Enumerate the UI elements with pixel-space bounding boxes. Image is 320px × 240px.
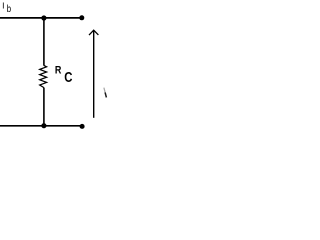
svg-text:I: I xyxy=(2,1,4,11)
resistor R_C zigzag xyxy=(40,65,47,87)
svg-text:C: C xyxy=(64,70,73,86)
current arrow shaft (pointing up) xyxy=(93,31,95,118)
wire resistor branch lower segment xyxy=(43,88,45,126)
svg-text:b: b xyxy=(7,4,12,15)
wire resistor branch upper segment xyxy=(43,18,45,66)
junction dot top node xyxy=(41,15,46,20)
wire top horizontal xyxy=(0,17,82,19)
node dot bottom-right wire endpoint xyxy=(80,124,85,129)
label I_b xyxy=(2,1,11,15)
partial label V (cut off at right edge) xyxy=(104,88,105,93)
wire bottom horizontal xyxy=(0,125,82,127)
node dot top-right wire endpoint xyxy=(79,15,84,20)
current arrow head xyxy=(89,30,98,35)
label R_C xyxy=(55,65,73,87)
junction dot bottom node xyxy=(41,123,46,128)
svg-text:R: R xyxy=(55,65,62,77)
